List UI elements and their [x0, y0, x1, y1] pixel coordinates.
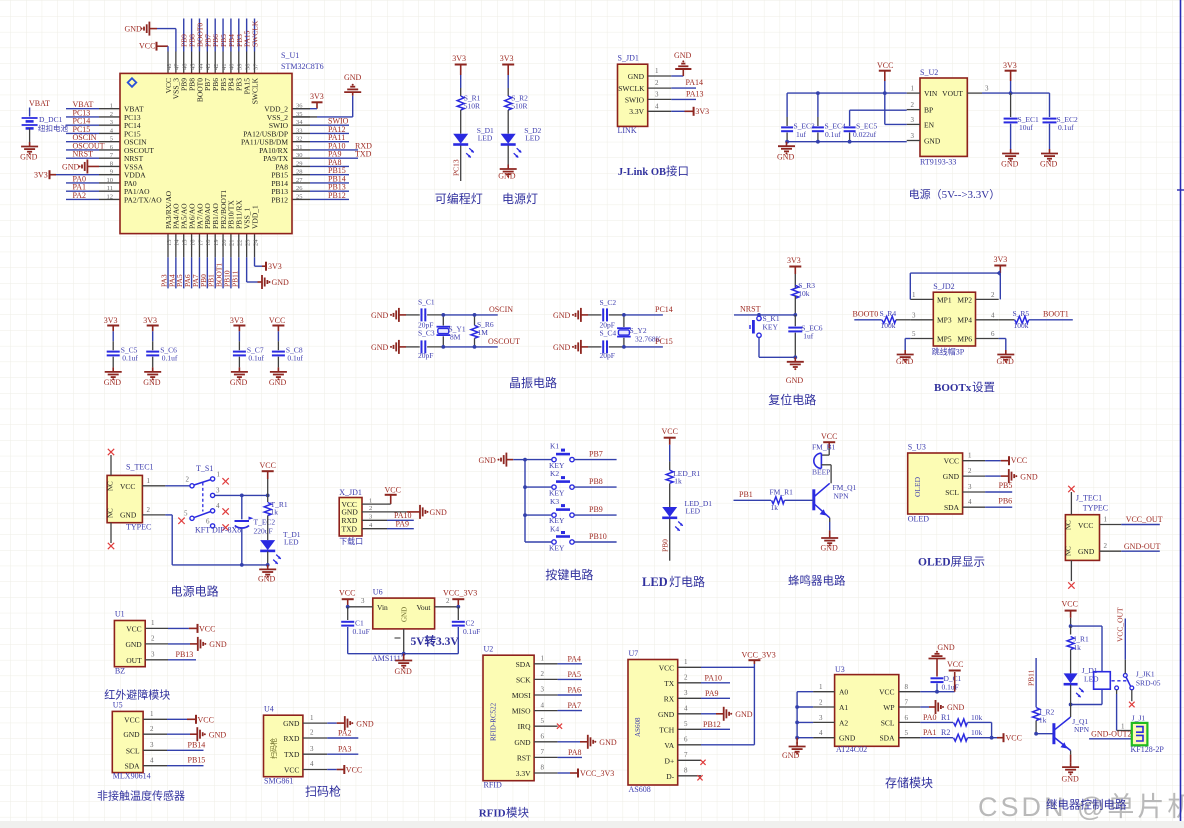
resistor S_R6 [443, 313, 478, 349]
svg-text:VCC: VCC [139, 41, 155, 50]
net label PA11 [328, 133, 345, 142]
svg-text:GND: GND [553, 311, 571, 320]
svg-text:U5: U5 [113, 701, 123, 710]
svg-text:4: 4 [991, 311, 995, 319]
svg-text:FM_B1: FM_B1 [812, 443, 836, 452]
svg-text:PB15: PB15 [188, 756, 206, 765]
U5 pins [143, 710, 167, 766]
designator R1 [941, 713, 950, 722]
svg-text:接口: 接口 [666, 165, 689, 178]
net label PB8 [188, 34, 197, 47]
svg-text:GND: GND [997, 357, 1015, 366]
svg-text:NC: NC [107, 508, 115, 518]
wire net PC13 (left) [66, 116, 99, 118]
net label PA0 (U3) [923, 713, 937, 722]
svg-text:2: 2 [151, 635, 155, 643]
value LED (J_D1) [1084, 675, 1099, 684]
net label PB0 [661, 539, 670, 552]
value KEY (K1) [549, 461, 565, 470]
svg-text:VCC: VCC [821, 432, 837, 441]
svg-text:PB10: PB10 [589, 532, 607, 541]
svg-text:10k: 10k [971, 713, 983, 722]
wire U5 SDA [167, 765, 204, 767]
net label PC14 [73, 117, 91, 126]
ground (S_C6) [143, 367, 161, 387]
svg-text:1: 1 [110, 103, 113, 110]
svg-text:VA: VA [664, 741, 674, 750]
net label PB7 [203, 34, 212, 47]
svg-text:3.3V: 3.3V [629, 107, 644, 116]
net label PA1 (U3) [923, 728, 937, 737]
ground (S_C1 left) [371, 308, 406, 322]
U2 pins [534, 655, 558, 774]
svg-text:2: 2 [186, 476, 190, 484]
svg-text:35: 35 [296, 111, 303, 118]
svg-text:VOUT: VOUT [942, 89, 963, 98]
svg-text:PA2/TX/AO: PA2/TX/AO [124, 195, 162, 204]
wire J_D1 to node [1070, 685, 1072, 705]
svg-text:PA10: PA10 [705, 673, 723, 682]
svg-text:VCC_3V3: VCC_3V3 [742, 651, 776, 660]
svg-text:继电器控制电路: 继电器控制电路 [1046, 798, 1127, 812]
net label GND-OUT [1124, 542, 1161, 551]
title 复位电路 [768, 392, 816, 407]
power VCC (U4) [344, 765, 362, 775]
resistor LED_R1 [666, 470, 673, 483]
svg-text:晶振电路: 晶振电路 [509, 375, 557, 390]
power VCC (OLED) [1009, 456, 1027, 465]
svg-text:Vin: Vin [377, 603, 388, 612]
LED T_D1 [260, 540, 281, 564]
designator S_EC1 [1018, 115, 1040, 124]
svg-text:PB14: PB14 [188, 740, 206, 749]
title RFID模块 [479, 807, 530, 820]
designator D_C1 [944, 674, 962, 683]
svg-text:4: 4 [819, 729, 823, 737]
value 0.1uf (S_C5) [122, 354, 138, 363]
svg-text:电源灯: 电源灯 [502, 192, 538, 206]
net label PB12 [328, 191, 346, 200]
svg-text:1: 1 [911, 85, 915, 93]
ground (relay) [1062, 763, 1080, 784]
svg-text:D-: D- [666, 772, 674, 781]
svg-text:PB12: PB12 [271, 195, 288, 204]
value TYPEC (J_TEC1) [1083, 504, 1108, 513]
svg-text:PA6: PA6 [568, 686, 582, 695]
capacitor S_C6 [146, 331, 159, 367]
svg-text:OSCIN: OSCIN [489, 305, 513, 314]
svg-text:VCC: VCC [659, 663, 674, 672]
power 3V3 (S_U2 out) [1003, 61, 1017, 81]
net label PA12 [328, 125, 346, 134]
svg-text:GND: GND [553, 343, 571, 352]
wire net PB10 (bottom) [230, 257, 232, 288]
svg-text:42: 42 [213, 64, 220, 71]
svg-text:VCC_OUT: VCC_OUT [1116, 607, 1125, 642]
svg-text:SDA: SDA [879, 734, 895, 743]
svg-text:MISO: MISO [512, 707, 531, 716]
designator S_C1 [418, 298, 435, 307]
svg-text:0.1uf: 0.1uf [287, 354, 303, 363]
svg-text:D_DC1: D_DC1 [39, 115, 63, 124]
wire OLED GND [985, 475, 1008, 477]
net label PA0 [73, 174, 87, 183]
svg-text:PA2: PA2 [73, 191, 87, 200]
svg-text:VCC: VCC [199, 624, 215, 633]
svg-text:VCC: VCC [126, 624, 141, 633]
value BEEP [812, 468, 830, 477]
title 晶振电路 [509, 375, 557, 390]
svg-text:LED: LED [642, 575, 668, 589]
svg-text:AS608: AS608 [634, 717, 642, 737]
wire LED_R1 to LED_D1 [669, 483, 671, 507]
svg-text:OLED: OLED [913, 476, 922, 497]
wire OSCOUT [475, 346, 498, 348]
wire net PC15 (left) [66, 132, 99, 134]
svg-text:PB9: PB9 [589, 505, 603, 514]
svg-text:4: 4 [968, 498, 972, 506]
power VCC_3V3 (U2) [578, 769, 614, 779]
switch K3 [552, 506, 574, 518]
svg-text:2: 2 [446, 597, 450, 605]
svg-text:GND: GND [658, 710, 675, 719]
resistor S_R1 [457, 96, 464, 110]
svg-text:VCC: VCC [198, 715, 214, 724]
wire U7 GND [701, 713, 724, 715]
svg-text:43: 43 [205, 64, 212, 71]
svg-text:6: 6 [905, 714, 909, 722]
net label PA10 [328, 141, 372, 150]
ground (U1) [198, 637, 227, 651]
designator S_EC3 [794, 122, 816, 131]
svg-text:3V3: 3V3 [1003, 61, 1017, 70]
svg-text:1k: 1k [674, 477, 682, 486]
S_TEC1 pin2 [142, 506, 165, 515]
svg-text:TXD: TXD [284, 750, 300, 759]
switch K1 [552, 450, 574, 462]
svg-text:3V3: 3V3 [452, 54, 466, 63]
svg-text:2: 2 [819, 699, 823, 707]
svg-text:AS608: AS608 [629, 785, 651, 794]
svg-text:24: 24 [252, 239, 259, 246]
svg-text:IRQ: IRQ [518, 722, 532, 731]
designator S_EC4 [825, 122, 847, 131]
svg-text:PB11: PB11 [1027, 669, 1036, 686]
svg-text:1: 1 [217, 471, 221, 479]
wire net BOOT0 (top) [198, 19, 200, 52]
svg-text:MP5: MP5 [937, 334, 952, 343]
wire PC15 [624, 346, 663, 348]
svg-text:SWIO: SWIO [625, 95, 645, 104]
svg-text:NPN: NPN [1074, 725, 1090, 734]
svg-text:10k: 10k [798, 289, 810, 298]
value BZ [115, 667, 125, 676]
designator S_R4 [880, 309, 897, 318]
svg-text:RFID-RC522: RFID-RC522 [490, 702, 498, 741]
net label PB11 (vert) [1027, 669, 1036, 686]
designator LED_R1 [673, 469, 700, 478]
svg-text:3: 3 [310, 745, 314, 753]
LED LED_D1 [662, 507, 683, 531]
svg-text:GND: GND [479, 456, 497, 465]
svg-text:GND: GND [1001, 160, 1019, 169]
value 1k (LED_R1) [674, 477, 682, 486]
designator S_TEC1 [126, 463, 154, 472]
wire VCC to LED_R1 [669, 445, 671, 470]
svg-text:GND: GND [125, 25, 143, 34]
net label OSCOUT [73, 141, 105, 150]
value KEY (K4) [549, 544, 565, 553]
wire net PB4 (top) [230, 19, 232, 52]
value 1uf [796, 130, 807, 139]
designator S_EC6 [801, 324, 823, 333]
svg-text:VCC: VCC [124, 715, 139, 724]
svg-text:3V3: 3V3 [268, 262, 282, 271]
wire GND-OUT [1121, 550, 1160, 552]
svg-text:3V3: 3V3 [695, 107, 709, 116]
svg-text:PB11: PB11 [230, 270, 239, 287]
ground (S_C5) [104, 367, 122, 387]
svg-text:GND: GND [943, 472, 960, 481]
value 32.768K [635, 335, 662, 344]
capacitor S_C3 [406, 340, 443, 353]
designator S_R6 [477, 320, 494, 329]
designator T_S1 [196, 464, 213, 473]
designator U4 [264, 705, 274, 714]
svg-text:220uF: 220uF [254, 527, 273, 536]
resistor FM_R1 [772, 497, 785, 504]
net label OSCOUT [488, 337, 520, 346]
svg-text:46: 46 [182, 63, 189, 70]
regulator U6 body [373, 598, 435, 629]
svg-text:模块: 模块 [506, 807, 529, 820]
module U7 body [628, 660, 678, 786]
svg-text:S_TEC1: S_TEC1 [126, 463, 154, 472]
svg-text:STM32C8T6: STM32C8T6 [281, 62, 324, 71]
svg-text:GND: GND [344, 73, 362, 82]
buzzer FM_B1 [814, 448, 831, 483]
designator U2 [484, 645, 494, 654]
svg-text:GND: GND [937, 643, 955, 652]
svg-text:PA0: PA0 [923, 713, 937, 722]
wire net VBAT (left) [66, 108, 99, 110]
svg-text:A0: A0 [839, 688, 848, 697]
svg-text:PC14: PC14 [655, 305, 673, 314]
svg-text:33: 33 [296, 127, 303, 134]
svg-text:VCC: VCC [662, 427, 678, 436]
svg-text:41: 41 [221, 64, 228, 71]
net label PB3 [235, 34, 244, 47]
wire VBAT battery [29, 108, 31, 117]
value 纽扣电池 [38, 123, 68, 133]
wire R1 to VCC [968, 722, 992, 737]
wire bus to K3 [525, 514, 552, 516]
ground (OLED) [1009, 469, 1038, 483]
wire net OSCIN (left) [66, 141, 99, 143]
svg-text:LED: LED [525, 134, 540, 143]
svg-text:MOSI: MOSI [512, 691, 531, 700]
svg-text:PB12: PB12 [328, 191, 346, 200]
ground (S_C2 left) [553, 308, 588, 322]
svg-text:VCC: VCC [385, 486, 401, 495]
connector S_JD2 body [933, 292, 975, 346]
transistor FM_Q1 [814, 483, 830, 518]
wire net PA6 (bottom) [191, 257, 193, 288]
ground (buzzer) [821, 534, 839, 553]
wire U7 VCC/VA [701, 664, 754, 745]
svg-text:VCC: VCC [120, 482, 135, 491]
svg-text:PA14: PA14 [686, 78, 704, 87]
svg-text:1: 1 [655, 67, 659, 75]
designator K1 [550, 442, 559, 451]
power VCC (buzzer) [821, 432, 837, 448]
title 电源（5V-3.3V） [909, 187, 1001, 201]
connector X_JD1 body [339, 498, 362, 537]
S_JD1 pins 1-4 [648, 67, 672, 111]
U4 pins [303, 714, 327, 770]
wire net PB7 (top) [206, 19, 208, 52]
svg-text:2: 2 [1104, 542, 1108, 550]
value SRD-05 [1136, 679, 1161, 688]
designator J_R2 [1039, 708, 1055, 717]
svg-text:D+: D+ [665, 756, 675, 765]
designator S_C8 [286, 346, 303, 355]
svg-text:NRST: NRST [740, 305, 761, 314]
capacitor S_EC3 [781, 93, 793, 142]
wire R2 to VCC [968, 736, 1003, 740]
wire U2 PA7 [558, 710, 582, 712]
wire K2 to PB8 [574, 486, 616, 488]
svg-text:1uf: 1uf [803, 332, 814, 341]
svg-text:GND: GND [123, 730, 140, 739]
svg-text:22: 22 [237, 240, 244, 247]
svg-text:GND: GND [430, 508, 448, 517]
value 10k (R1) [971, 713, 983, 722]
value 100k (S_R4) [881, 321, 896, 330]
net label PA10 (dl) [394, 511, 412, 520]
wire bus to K4 [525, 541, 552, 543]
svg-text:1: 1 [1121, 723, 1125, 731]
S_TEC1 pin1 [142, 477, 165, 486]
value AS608 [629, 785, 651, 794]
wire U3 left bus [795, 692, 813, 740]
svg-text:LED: LED [284, 538, 299, 547]
wire pin4 3V3 [671, 107, 709, 116]
net label VBAT [73, 100, 94, 109]
svg-text:S_JD2: S_JD2 [933, 282, 954, 291]
svg-text:K4: K4 [550, 524, 559, 533]
title 非接触温度传感器 [97, 789, 185, 803]
net label PB15 [328, 166, 346, 175]
svg-text:1uf: 1uf [796, 130, 807, 139]
svg-text:FM_R1: FM_R1 [770, 488, 794, 497]
net label PA7 [568, 701, 582, 710]
svg-text:3V3: 3V3 [500, 54, 514, 63]
ground (S_D2) [498, 165, 517, 181]
wire net PA12 (right) [310, 132, 349, 134]
S_U3 pins [963, 452, 986, 508]
svg-text:7: 7 [541, 748, 545, 756]
wire U1 VCC [168, 627, 197, 629]
net label BOOT0 [853, 310, 879, 319]
designator S_C2 [600, 298, 617, 307]
net label PB12 (U7) [703, 720, 721, 729]
designator U7 [629, 649, 639, 658]
net label PB9 [589, 505, 603, 514]
net label OSCIN [73, 133, 97, 142]
wire MP5 to gnd [905, 339, 910, 351]
svg-text:13: 13 [166, 240, 173, 247]
svg-text:20: 20 [221, 240, 228, 247]
wire key bus [513, 458, 527, 542]
net label PA9 (U7) [705, 689, 719, 698]
svg-text:PB7: PB7 [589, 449, 603, 458]
wire net PB0 (bottom) [206, 257, 208, 288]
svg-text:MLX90614: MLX90614 [113, 772, 151, 781]
U7 D+ nc [700, 760, 705, 765]
ground (typec) [258, 565, 276, 584]
net label PA1 [73, 183, 87, 192]
svg-text:VCC: VCC [339, 589, 355, 598]
svg-text:5: 5 [684, 720, 688, 728]
power VCC_3V3 (U6) [443, 589, 477, 609]
designator S_D1 [477, 126, 494, 135]
net label BOOT1 [215, 263, 224, 287]
wire net PB3 (top) [238, 19, 240, 52]
net label PA15 [243, 30, 252, 47]
J_TEC1 bottom stub [1068, 560, 1074, 588]
svg-text:1: 1 [151, 619, 155, 627]
X_JD1 pins [362, 497, 387, 529]
value 0.1uf [1058, 123, 1074, 132]
svg-text:RX: RX [664, 694, 675, 703]
svg-text:3V3: 3V3 [34, 171, 48, 180]
wire collector [1070, 705, 1072, 718]
designator K4 [550, 524, 559, 533]
net label VCC_OUT (vert) [1116, 607, 1125, 642]
ground (MP6) [997, 350, 1015, 366]
designator T_EC2 [254, 518, 276, 527]
wire U4 VCC [327, 769, 343, 771]
svg-text:5: 5 [905, 729, 909, 737]
value LED (T_D1) [284, 538, 299, 547]
svg-text:纽扣电池: 纽扣电池 [38, 123, 68, 133]
module U5 body [112, 711, 143, 772]
svg-text:3: 3 [110, 119, 113, 126]
power 3V3 (S_C5) [104, 316, 120, 331]
svg-text:3V3: 3V3 [310, 92, 324, 101]
value KEY (K3) [549, 516, 565, 525]
svg-text:1: 1 [541, 655, 545, 663]
U1 top pins 48-37 [166, 52, 260, 74]
svg-text:VCC: VCC [877, 61, 893, 70]
net label PA2 [73, 191, 87, 200]
svg-text:1k: 1k [1039, 716, 1047, 725]
svg-text:BZ: BZ [115, 667, 125, 676]
regulator S_U2 body [920, 78, 967, 156]
svg-text:2: 2 [147, 506, 151, 514]
svg-text:2: 2 [968, 467, 972, 475]
designator T_R1 [271, 500, 288, 509]
svg-text:VCC: VCC [947, 660, 963, 669]
wire net PB15 (right) [310, 174, 349, 176]
value 1M [478, 328, 489, 337]
svg-text:3V3: 3V3 [104, 316, 118, 325]
capacitor C2 [452, 607, 465, 654]
net label PA3 (U4) [338, 745, 352, 754]
svg-text:0.022uf: 0.022uf [853, 130, 877, 139]
value 1k (FM_R1) [771, 503, 779, 512]
